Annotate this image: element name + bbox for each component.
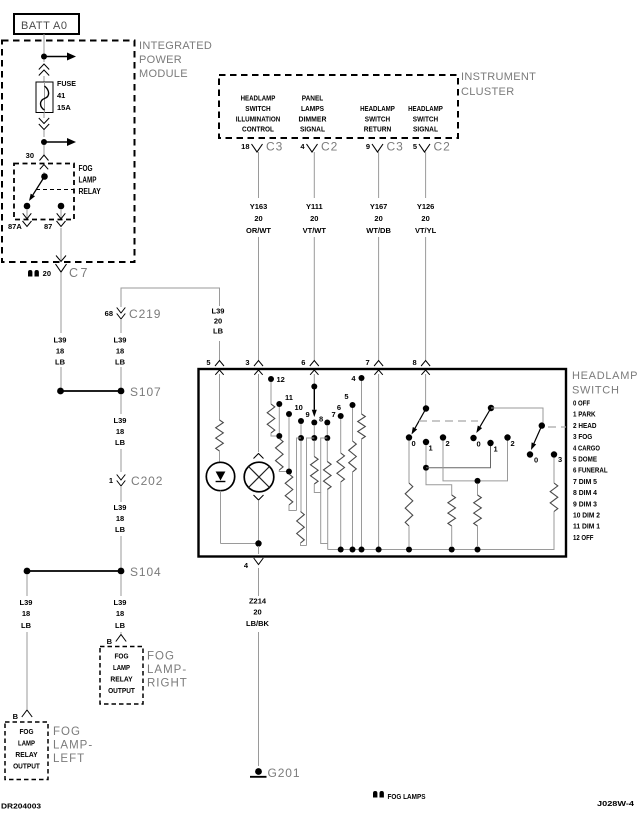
rheostat tap 5 [350,402,356,408]
svg-text:6: 6 [337,403,341,412]
svg-text:20: 20 [310,214,318,223]
selector 2 contact 2 [504,434,510,440]
svg-text:Y163: Y163 [250,202,268,211]
svg-text:LAMP: LAMP [113,665,130,672]
svg-text:11 DIM 1: 11 DIM 1 [573,522,601,531]
resistor fog load [474,495,482,526]
svg-text:5: 5 [206,358,210,367]
instrument cluster box [219,75,458,138]
stub tap 9 bypass [297,438,302,511]
svg-text:18: 18 [116,514,124,523]
fog lamps legend [373,791,377,798]
relay switch pivot [41,173,48,180]
selector linkage dashed [419,420,478,422]
wire Y126 20 VT/YL [425,152,427,198]
selector 3 contact 3 [551,451,557,457]
wire L39 18 LB below S107 [120,394,122,414]
svg-text:LB/BK: LB/BK [246,619,269,628]
wire L39 20 LB to pin 5 [219,302,221,306]
svg-text:C202: C202 [131,474,163,488]
svg-text:7: 7 [332,410,336,419]
svg-text:FOG: FOG [79,164,93,173]
svg-text:VT/YL: VT/YL [415,226,437,235]
resistor dim step R12 [270,382,272,404]
svg-text:HEADLAMP: HEADLAMP [241,94,276,103]
resistor dome load [550,483,558,512]
svg-text:SWITCH: SWITCH [245,104,270,113]
svg-text:RELAY: RELAY [15,752,38,759]
svg-text:LAMPS: LAMPS [301,104,324,113]
svg-text:LAMP-: LAMP- [147,664,187,676]
node lamp return junction [255,540,261,546]
selector contact 2 [440,434,446,440]
svg-text:87: 87 [44,222,52,231]
node bus junction [376,547,382,553]
ground G201 [255,768,262,775]
wire contact 0 to resistor [408,441,410,484]
svg-text:B: B [13,712,19,721]
svg-text:LB: LB [213,327,224,336]
svg-text:BATT A0: BATT A0 [21,20,68,32]
wire junction to head load resistor [426,471,452,496]
lamp connector chevron [254,495,264,500]
svg-text:2: 2 [446,439,450,448]
node tap 7 junction [326,425,328,435]
resistor park load [405,483,413,526]
wire pin 5 to illumination resistor [219,374,221,420]
svg-text:18: 18 [116,347,124,356]
node bus junction [359,547,365,553]
fuse F41 15A [36,82,53,113]
svg-text:WT/DB: WT/DB [366,226,391,235]
resistor dim step R5 [352,408,354,441]
wire L39 18 LB to S107 [120,320,122,333]
node bus junction [406,547,412,553]
svg-text:9: 9 [366,142,370,151]
splice S107 [118,388,125,395]
inline connector chevrons [39,64,49,70]
pin 5 of headlamp switch [215,361,224,367]
svg-text:5: 5 [344,392,348,401]
wire Y163 20 OR/WT [258,152,260,198]
panel lamp [244,462,274,492]
wire contact 3 to dome resistor [553,458,555,484]
svg-text:ILLUMINATION: ILLUMINATION [236,114,281,123]
resistor dim step R10 [285,474,293,505]
selector 2 pivot node [488,405,494,411]
svg-text:SIGNAL: SIGNAL [300,125,325,134]
selector arm to position 0 [415,409,426,429]
svg-text:18: 18 [22,609,30,618]
relay contact 87A [24,203,31,210]
selector 2 contact 0 [470,435,476,441]
pin 8 of headlamp switch [421,361,430,367]
svg-text:12 OFF: 12 OFF [573,533,594,542]
svg-text:7 DIM 5: 7 DIM 5 [573,477,598,486]
svg-text:3: 3 [245,358,249,367]
wire L39 18 LB to left fog lamp [26,574,28,596]
svg-text:9 DIM 3: 9 DIM 3 [573,499,597,508]
node tap 10 junction [288,417,290,469]
wire pivot 2 to pivot 3 [491,408,543,423]
svg-text:8: 8 [413,358,417,367]
svg-text:C2: C2 [321,140,338,154]
node fog junction [475,478,481,484]
svg-text:20: 20 [254,214,262,223]
LED indicator [206,462,234,490]
svg-text:DR204003: DR204003 [1,804,41,811]
svg-text:C219: C219 [129,307,161,321]
svg-text:FOG: FOG [53,726,81,738]
svg-text:18: 18 [116,609,124,618]
svg-text:L39: L39 [114,598,127,607]
pin 7 of headlamp switch [374,361,383,367]
wire Z214 20 LB/BK to ground [258,568,260,596]
pin 87 chevron [57,221,66,227]
svg-text:8 DIM 4: 8 DIM 4 [573,488,598,497]
svg-text:6 FUNERAL: 6 FUNERAL [573,466,608,475]
svg-text:9: 9 [306,410,310,419]
svg-text:5 DOME: 5 DOME [573,455,597,464]
svg-text:FOG: FOG [19,729,34,736]
wire bridge to headlamp switch pin 5 [121,288,220,307]
headlamp switch box [199,369,567,557]
pin 4 of headlamp switch [254,558,264,565]
svg-text:L39: L39 [20,598,33,607]
wire lamp to pin 4 [258,501,260,541]
wire contact 2 bridge [443,441,508,481]
svg-text:HEADLAMP: HEADLAMP [572,370,638,382]
svg-text:INSTRUMENT: INSTRUMENT [461,71,536,83]
fog lamp left box [5,722,48,780]
wire Y167 20 WT/DB [378,152,380,198]
svg-text:0: 0 [477,440,481,449]
svg-text:30: 30 [26,151,34,160]
wire to fuse [43,76,45,82]
svg-text:VT/WT: VT/WT [303,226,327,235]
svg-text:OUTPUT: OUTPUT [108,688,135,695]
svg-text:RELAY: RELAY [79,187,102,196]
relay switch arm to 87A [33,177,45,195]
selector contact 0 [406,434,412,440]
svg-text:0: 0 [534,456,538,465]
svg-text:0: 0 [412,439,416,448]
svg-text:POWER: POWER [139,54,182,66]
svg-text:C7: C7 [69,266,90,280]
svg-text:SWITCH: SWITCH [572,385,620,397]
svg-text:20: 20 [43,269,51,278]
svg-text:6: 6 [301,358,305,367]
selector 3 linkage dashed [548,426,566,428]
wire pin 6 to wiper [313,374,315,386]
pin 87A chevron [23,221,32,227]
wire R7 to bus [327,490,329,550]
svg-text:12: 12 [277,375,285,384]
svg-text:5: 5 [413,142,417,151]
relay contact 87 [58,203,65,210]
svg-text:LEFT: LEFT [53,753,85,765]
rheostat tap 4 [359,375,365,381]
feed arrow to other circuits [44,141,69,143]
wire L39 18 LB to right fog lamp [120,574,122,596]
selector pivot node [423,405,429,411]
wire relay 87 to C7 [60,228,62,261]
bridge wafer1-1 to wafer2-1 [426,446,491,468]
rheostat tap 8 [311,420,317,426]
resistor dim step R6 [340,419,342,453]
svg-text:4 CARGO: 4 CARGO [573,443,600,452]
resistor dim step R9 [300,441,302,512]
svg-text:1: 1 [494,445,498,454]
svg-text:Y126: Y126 [417,202,435,211]
svg-text:C2: C2 [434,140,451,154]
svg-text:CLUSTER: CLUSTER [461,86,514,98]
wire BATT A0 to fuse [43,34,45,62]
svg-text:C3: C3 [387,140,404,154]
svg-text:Y111: Y111 [306,202,323,211]
wire LED to lamp return [220,491,222,544]
node bus junction [338,547,344,553]
svg-text:FOG: FOG [114,654,129,661]
selector 2 contact 1 [487,440,493,446]
lamp connector chevron [254,454,264,459]
svg-text:RETURN: RETURN [364,125,392,134]
svg-text:20: 20 [253,608,261,617]
wire pin 7 to bus [378,374,380,547]
selector 2 arm to position 0 [480,408,491,427]
svg-text:S104: S104 [130,565,162,579]
wire fuse to relay [43,113,45,119]
svg-text:1 PARK: 1 PARK [573,410,596,419]
svg-text:2: 2 [511,439,515,448]
node bus junction [350,547,356,553]
svg-text:CONTROL: CONTROL [242,125,274,134]
svg-text:20: 20 [421,214,429,223]
rheostat tap 6 [338,413,344,419]
svg-text:3: 3 [558,455,562,464]
svg-text:18: 18 [116,427,124,436]
svg-text:10 DIM 2: 10 DIM 2 [573,511,600,520]
wire junction to fog load resistor [477,484,479,496]
svg-text:20: 20 [374,214,382,223]
svg-text:SIGNAL: SIGNAL [413,125,438,134]
wiper arrow to tap 8 [313,387,315,410]
svg-text:1: 1 [429,444,433,453]
selector 3 arm to position 0 [534,426,542,444]
resistor illumination [216,420,224,451]
fog lamp relay box [14,164,74,220]
svg-text:LB: LB [115,438,126,447]
svg-text:15A: 15A [57,103,71,112]
svg-text:L39: L39 [54,336,67,345]
node at splice branch [57,388,64,395]
svg-text:S107: S107 [130,385,162,399]
stub tap 8 bypass [307,438,315,546]
svg-text:OUTPUT: OUTPUT [13,764,40,771]
svg-text:B: B [107,637,113,646]
svg-text:LAMP: LAMP [79,176,98,185]
svg-text:68: 68 [105,309,113,318]
svg-text:G201: G201 [268,766,301,780]
node tap 8 junction [313,425,315,435]
svg-text:LB: LB [115,358,126,367]
svg-text:1: 1 [109,476,113,485]
svg-text:C3: C3 [266,140,283,154]
wire pin 3 to lamp [258,374,260,452]
selector contact 1 [423,439,429,445]
svg-text:FOG LAMPS: FOG LAMPS [388,794,426,801]
svg-text:7: 7 [366,358,370,367]
svg-text:11: 11 [285,393,293,402]
Integrated Power Module box [2,41,135,263]
svg-text:8: 8 [319,415,323,424]
rheostat tap 7 [324,420,330,426]
resistor dim step R11 [276,439,284,471]
switch return bus [328,512,554,550]
svg-text:LAMP: LAMP [18,741,35,748]
svg-text:LB: LB [21,621,32,630]
svg-text:L39: L39 [114,416,127,425]
svg-text:RELAY: RELAY [110,677,133,684]
svg-text:18: 18 [241,142,249,151]
svg-text:SWITCH: SWITCH [413,114,438,123]
inline connector chevrons [39,118,49,124]
wire Y111 20 VT/WT [313,152,315,198]
svg-text:J028W-4: J028W-4 [597,801,634,808]
splice bar to S107 [61,390,122,392]
svg-text:Z214: Z214 [249,597,267,606]
wire resistor to LED [219,451,221,462]
stub tap 7 bypass [321,438,328,493]
rheostat tap 11 [276,401,282,407]
node left branch [24,568,31,575]
svg-text:3 FOG: 3 FOG [573,432,592,441]
svg-text:OR/WT: OR/WT [246,226,271,235]
svg-text:20: 20 [214,317,222,326]
node battery feed junction [41,54,47,60]
svg-text:2 HEAD: 2 HEAD [573,421,597,430]
svg-text:0 OFF: 0 OFF [573,399,590,408]
node bus junction [475,547,481,553]
svg-text:L39: L39 [114,503,127,512]
svg-text:L39: L39 [212,307,225,316]
connector C7 [28,270,32,277]
node bus junction [449,547,455,553]
splice bar S104 [27,570,121,572]
rheostat tap 10 [286,411,292,417]
svg-text:41: 41 [57,91,65,100]
node tap 9 junction [300,424,302,435]
resistor dim step R7 [326,441,328,462]
svg-text:HEADLAMP: HEADLAMP [408,104,443,113]
svg-text:FUSE: FUSE [57,79,76,88]
rheostat tap 9 [298,418,304,424]
pin 3 of headlamp switch [254,361,263,367]
svg-text:LB: LB [115,525,126,534]
battery feed BATT A0 box [14,14,79,34]
svg-text:SWITCH: SWITCH [365,114,390,123]
pin 6 of headlamp switch [310,361,319,367]
svg-text:RIGHT: RIGHT [147,678,188,690]
svg-text:MODULE: MODULE [139,68,188,80]
selector 3 pivot node [539,422,545,428]
svg-text:LB: LB [115,621,126,630]
svg-text:87A: 87A [8,222,22,231]
fog lamp right box [100,647,143,705]
resistor dim step R8 [313,441,315,457]
svg-text:18: 18 [56,347,64,356]
svg-text:10: 10 [295,403,303,412]
wire contact 1 junction [425,445,427,465]
node tap 11 junction [278,407,280,433]
wiper pivot node [311,384,317,390]
svg-text:L39: L39 [114,336,127,345]
resistor head load [448,495,456,526]
svg-text:INTEGRATED: INTEGRATED [139,40,212,52]
svg-text:HEADLAMP: HEADLAMP [360,104,395,113]
wire pin 8 to selector pivot [425,374,427,406]
svg-text:PANEL: PANEL [302,94,324,103]
svg-text:Y167: Y167 [370,202,388,211]
node fused feed junction [41,139,47,145]
relay common wire [43,172,45,175]
splice S104 [118,568,125,575]
svg-text:LAMP-: LAMP- [53,740,93,752]
svg-text:LB: LB [55,358,66,367]
svg-text:FOG: FOG [147,651,175,663]
rheostat tap 12 [268,376,274,382]
relay linkage dashed [36,189,74,191]
svg-text:DIMMER: DIMMER [299,114,327,123]
resistor dim step R4 [361,381,363,414]
feed arrow to other circuits [44,56,69,58]
wire L39 18 LB from C7 [60,287,62,333]
selector 3 contact 0 [527,451,533,457]
